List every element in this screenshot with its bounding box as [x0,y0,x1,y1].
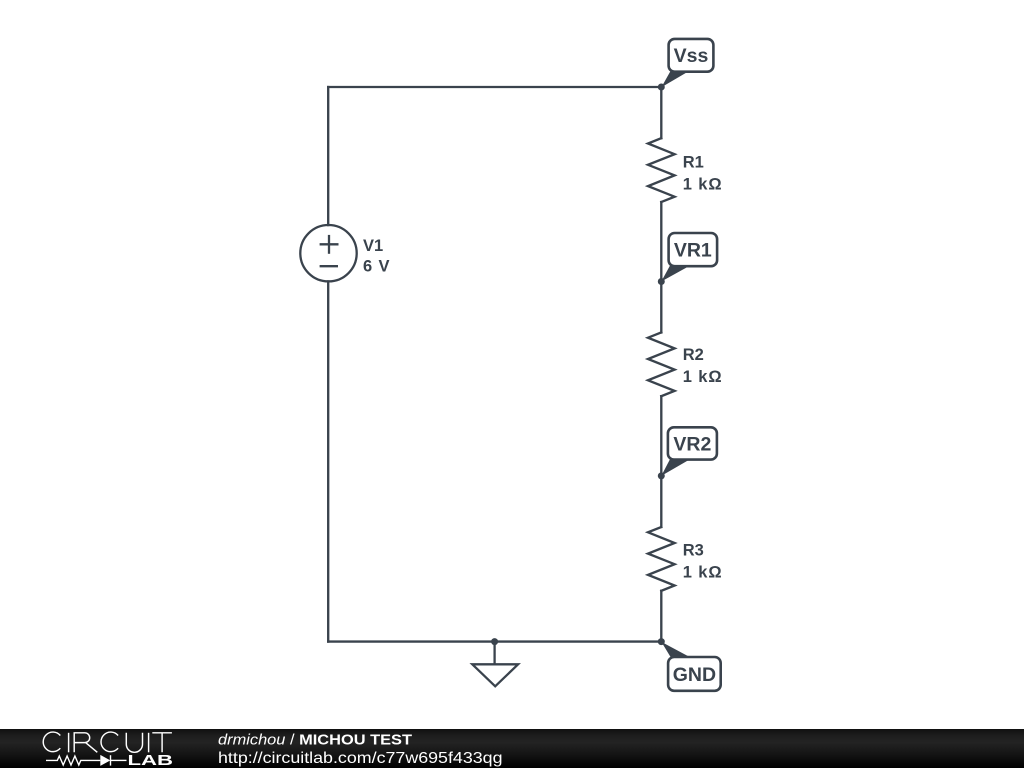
svg-text:LAB: LAB [128,752,174,768]
junction dot at VR2 node [658,472,665,479]
svg-text:R2: R2 [683,346,704,364]
svg-text:VR1: VR1 [674,240,712,262]
wire top (Vss net) [328,86,661,88]
svg-text:Vss: Vss [674,45,709,67]
node flag VR1 [661,233,717,282]
footer CircuitLab logo wordmark CIRCUIT [43,732,172,752]
svg-text:1 kΩ: 1 kΩ [683,564,723,582]
resistor R2 body [648,332,675,396]
svg-text:R1: R1 [683,153,704,171]
svg-text:GND: GND [673,664,716,686]
wire R3 to GND net [660,591,662,642]
resistor R1 body [648,138,675,202]
ground symbol [472,642,518,687]
svg-text:6 V: 6 V [363,258,390,276]
wire bottom (GND net) [328,640,661,642]
wire right rail Vss to R1 [660,87,662,138]
junction dot at ground symbol [491,638,498,645]
svg-text:1 kΩ: 1 kΩ [683,176,723,194]
svg-text:drmichou / MICHOU TEST: drmichou / MICHOU TEST [218,732,412,748]
junction dot at VR1 node [658,278,665,285]
wire R1 to R2 (through node VR1) [660,202,662,332]
svg-text:http://circuitlab.com/c77w695f: http://circuitlab.com/c77w695f433qg [218,750,503,767]
voltage source V1 symbol [300,225,356,281]
svg-text:VR2: VR2 [673,433,711,455]
node flag GND [661,642,720,691]
junction dot at GND node [658,638,665,645]
footer bar [0,729,1024,768]
wire left rail lower (V1 minus terminal to GND net) [327,281,329,641]
svg-text:1 kΩ: 1 kΩ [683,368,723,386]
junction dot at Vss node [658,84,665,91]
node flag VR2 [661,427,717,476]
wire left rail upper (to V1 plus terminal) [327,87,329,225]
node flag Vss [661,39,713,87]
resistor R3 body [648,527,675,591]
svg-text:R3: R3 [683,541,704,559]
svg-text:V1: V1 [363,237,383,255]
footer logo resistor-diode glyph [46,755,127,765]
wire R2 to R3 (through node VR2) [660,396,662,527]
